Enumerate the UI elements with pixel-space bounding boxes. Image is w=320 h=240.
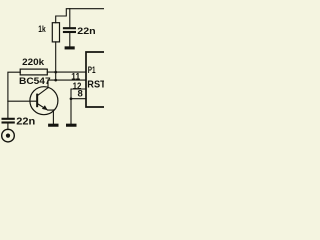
transistor Q1 emitter arrow [42,105,48,110]
svg-text:RST: RST [87,80,104,91]
wire collector riser [47,80,49,88]
wire pin 8 [71,98,86,100]
svg-text:8: 8 [78,89,83,100]
wire C1 gnd stub [69,33,71,47]
wire capacitor C1 stub from rail [69,9,71,28]
wire base [8,100,37,102]
node junction dot RST/main vertical [54,79,57,82]
svg-text:22n: 22n [16,117,35,128]
svg-text:P1: P1 [88,65,96,76]
svg-text:22n: 22n [77,26,96,37]
node junction dot 220k/main vertical [54,71,57,74]
resistor R1 1k box [52,23,59,42]
wire RST pin 11 [48,79,86,81]
wire 220k left to rail [8,72,20,118]
capacitor C3 22n bottom left plates [2,119,15,123]
capacitor C1 22n top right plates [63,28,76,32]
connector P1 box [86,52,105,107]
ground GND2 under emitter [48,124,58,127]
node junction dot pin8/gnd vertical [70,97,73,100]
ground GND1 under C1 [65,46,75,49]
earth symbol circle with dot [2,129,15,142]
wire C3 bottom stub [7,123,9,129]
wire emitter stub [52,110,54,124]
resistor R2 220k box [20,69,47,75]
svg-text:1k: 1k [38,24,46,35]
wire VCC top rail [56,9,104,23]
wire pin 12 [71,89,86,124]
svg-text:BC547: BC547 [19,76,51,87]
wire main vertical node from R1 to RST [55,42,57,80]
transistor Q1 BC547 [30,87,58,115]
ground GND3 under pin8 net [66,124,77,127]
svg-text:220k: 220k [22,56,45,67]
wire 220k to P1 pin at y72 [47,71,86,73]
